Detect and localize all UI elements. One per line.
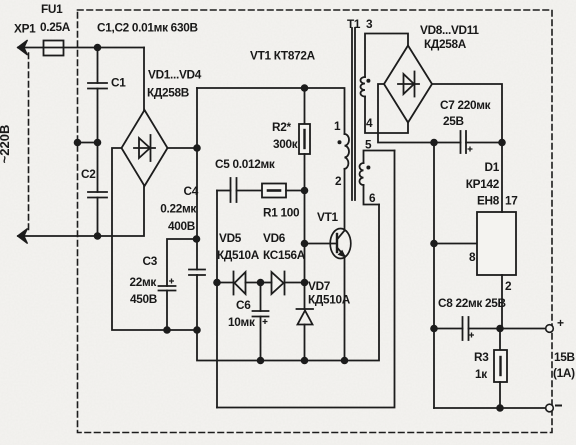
svg-text:1: 1 [334,119,341,133]
diode VD5 [217,272,261,295]
resistor R1 [262,184,305,198]
node: C3 bottom junction [163,326,171,334]
svg-text:10мк: 10мк [228,315,255,329]
capacitor C2 [88,143,107,237]
terminal minus [546,404,554,412]
wire: pin4 to bridge2 [365,97,408,134]
svg-text:400В: 400В [168,219,195,233]
node: C2 bottom junction [94,232,102,240]
svg-text:25В: 25В [443,114,464,128]
transistor VT1 [330,229,351,259]
svg-text:FU1: FU1 [41,2,63,16]
node: C6 top junction [257,279,265,287]
wire: emitter down [344,256,346,361]
wire: VD6 to VD7 node [304,244,306,283]
node: C3 tap junction [193,235,201,243]
wire: pin6 jog [364,185,380,205]
wire: x197 down to C4 [196,148,198,270]
svg-text:1к: 1к [475,367,487,381]
plus marks for electrolytics [169,147,474,338]
capacitor C8 [434,317,500,340]
svg-text:C1,C2 0.01мк 630В: C1,C2 0.01мк 630В [97,21,198,35]
svg-text:VD6: VD6 [263,231,286,245]
transformer T1 core [352,28,355,200]
regulator D1 [477,212,516,275]
wire: pin3 to bridge2 [365,34,408,78]
wire: R2 riser top [304,88,306,124]
svg-text:15В: 15В [554,350,575,364]
wire: C1C2 midpoint to chassis [78,142,98,144]
bridge rectifier VD8...VD11 [384,46,432,123]
svg-text:+: + [557,316,564,330]
minus sign output [556,405,561,407]
node: VD6 VD7 junction [301,279,309,287]
C6 plus [263,319,268,324]
wire: C5 R1 row [217,190,231,192]
svg-text:R2*: R2* [272,120,291,134]
wire: D1 pin2 output [501,275,503,329]
wire: feedback rail y407 [217,151,395,408]
wire: base feed [304,191,306,244]
diode VD7 [297,283,314,361]
svg-text:VD5: VD5 [219,231,242,245]
svg-text:2: 2 [505,279,512,293]
svg-text:3: 3 [366,17,373,31]
wire: pin5 jog [364,151,395,164]
node: C8 left junction [430,325,438,333]
winding 5-6 [359,163,363,185]
C7 plus [468,147,473,152]
wire: bottom mains input [18,186,144,236]
node: R1 R2 junction [301,187,309,195]
node: R2 top junction [301,84,309,92]
wire: base wire [305,243,336,245]
svg-text:XP1: XP1 [14,22,36,36]
svg-text:0.25A: 0.25A [40,20,71,34]
svg-text:VD7: VD7 [308,279,331,293]
svg-text:C4: C4 [184,184,199,198]
wire: bridge1 minus to bottom rail [112,148,197,330]
node: D1 input junction [498,139,506,147]
svg-text:R1 100: R1 100 [263,206,300,220]
wire: D1 pin17 input [501,143,503,213]
connector XP1 dashed link [28,53,30,231]
svg-text:2: 2 [335,174,342,188]
svg-text:VD1...VD4: VD1...VD4 [148,68,202,82]
node: VD5 C5 junction [213,279,221,287]
C8 plus [469,333,474,338]
svg-text:VD8...VD11: VD8...VD11 [420,23,479,37]
arrow mains top [18,40,28,55]
winding 3-4 phase dot [366,79,370,83]
svg-text:КД510А: КД510А [308,293,351,307]
svg-text:КД258А: КД258А [424,37,467,51]
C3 plus [169,279,174,284]
svg-text:C2: C2 [81,167,96,181]
winding 1-2 [345,134,350,169]
svg-text:6: 6 [369,191,376,205]
capacitor C5 [231,178,263,202]
wire: collector to winding2 [344,169,346,231]
capacitor C1 [88,48,107,143]
capacitor C4 [189,270,205,331]
wire: top mains input [18,47,144,49]
node: bridge1 plus junction [193,144,201,152]
node: base junction [301,240,309,248]
svg-text:VT1: VT1 [317,210,338,224]
svg-text:~220В: ~220В [0,125,12,164]
capacitor C7 [434,131,502,153]
fuse FU1 [44,41,64,56]
node: emitter junction [341,357,349,365]
node: VD7 bottom junction [301,357,309,365]
node: C4 bottom junction [193,326,201,334]
svg-text:КС156А: КС156А [263,248,306,262]
svg-text:C7 220мк: C7 220мк [440,98,491,112]
svg-text:5: 5 [365,138,372,152]
node: chassis junction [74,139,82,147]
wire: bridge2 plus top path [432,84,502,143]
svg-text:C8 22мк 25В: C8 22мк 25В [438,296,506,310]
svg-text:(1А): (1А) [553,366,575,380]
terminal plus [546,325,554,333]
node: output minus junction [496,404,504,412]
diode VD6 zener [261,272,305,295]
winding 1-2 phase dot [338,140,342,144]
node: C6 bottom junction [257,357,265,365]
svg-text:КР142: КР142 [466,177,500,191]
winding 5-6 phase dot [366,166,370,170]
capacitor C3 [159,286,176,330]
svg-text:КД258В: КД258В [147,86,189,100]
svg-text:8: 8 [469,250,476,264]
node: output plus junction [496,325,504,333]
wire: top DC rail y88 [197,88,345,134]
svg-text:C3: C3 [143,254,158,268]
svg-text:R3: R3 [474,350,489,364]
svg-text:C5 0.012мк: C5 0.012мк [215,157,275,171]
node: pin8 junction [430,240,438,248]
wire: D1 pin8 [434,243,477,245]
capacitor C6 [253,283,269,361]
enclosure dashed border [78,10,553,433]
wire: C3 branch [167,239,197,286]
wire: plus riser x197 [196,88,198,148]
svg-text:300к: 300к [273,137,298,151]
wire: common rail y360 [197,205,379,361]
svg-text:D1: D1 [485,160,500,174]
wire: bridge2 minus to gnd rail [378,84,434,143]
svg-text:4: 4 [366,116,373,130]
svg-text:T1: T1 [347,17,361,31]
wire: R2 to R1 node [304,154,306,191]
node: gnd rail left junction [430,139,438,147]
arrow mains bottom [18,229,28,244]
svg-text:0.22мк: 0.22мк [160,202,196,216]
node: C1 top junction [94,44,102,52]
svg-text:C6: C6 [236,298,251,312]
winding 3-4 [361,77,366,97]
svg-text:450В: 450В [130,292,157,306]
svg-text:C1: C1 [111,76,126,90]
svg-text:КД510А: КД510А [217,248,260,262]
wire: top AC down to bridge1 [143,48,145,111]
resistor R3 [494,329,507,409]
wire: bridge1 plus to node [168,147,198,149]
svg-text:VT1 КТ872А: VT1 КТ872А [250,49,316,63]
wire: output minus row [434,407,546,409]
node: C1C2 mid junction [94,139,102,147]
resistor R2 [299,124,310,154]
svg-text:ЕН8: ЕН8 [477,194,500,208]
wire: gnd riser x434 [433,143,435,409]
wire: left node riser x217 [216,191,218,408]
wire: output plus row [500,328,546,330]
svg-text:22мк: 22мк [129,275,156,289]
svg-text:17: 17 [505,194,518,208]
bridge rectifier VD1...VD4 [122,110,168,186]
